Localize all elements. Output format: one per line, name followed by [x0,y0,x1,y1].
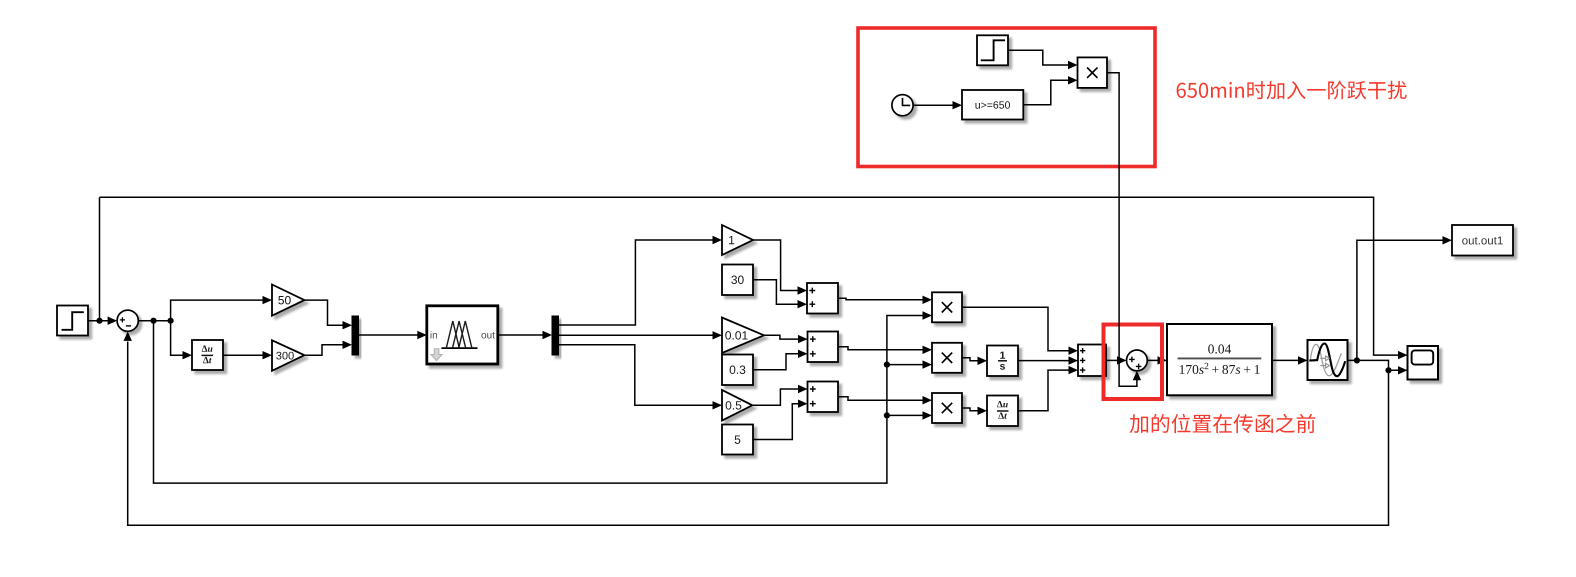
wire transport delay to scope input 2 [1348,360,1400,370]
integrator block 1/s [987,346,1018,377]
wire disturbance product down to sum junction plus input [1107,73,1141,387]
red annotation text position before transfer function [1130,414,1316,433]
wire gain 1 to sum A input 1 [753,240,799,291]
wire tap to product C input 2 [887,414,924,416]
wire sum A to product A input 1 [838,298,924,300]
wire constant 0.3 to sum B input 2 [753,354,800,370]
wire sum output [138,320,170,322]
wire demux output 3 to gain 0.5 [559,345,715,406]
clock block [892,95,913,116]
wire gain 300 to mux input 2 [304,345,344,355]
product block C [932,393,962,423]
wire clock to compare block [913,104,954,106]
wire product C to derivative 2 [962,408,980,411]
wire top reference line to scope input 1 [100,197,1400,355]
gain block 1 [722,225,753,255]
wire fuzzy controller to demux [498,334,544,336]
node error branch dot 2 [168,318,174,324]
wire main feedback to sum junction minus input [128,342,1389,526]
wire step2 to product input 1 [1008,50,1070,65]
final sum block (+++) [1078,345,1106,377]
wire tap to product B input 2 [887,364,924,366]
wire mux to fuzzy controller [359,334,419,336]
product block A [932,292,962,322]
disturbance product block [1078,57,1108,88]
wire demux output 2 to gain 0.01 [559,334,715,336]
constant block 5 [722,425,753,455]
derivative block du/dt 2 [987,396,1018,427]
wire reference branch up to top line [99,197,101,320]
red highlight rectangle around disturbance subsystem [858,28,1155,167]
node error branch dot 1 [150,318,156,324]
gain block 0.5 [722,390,752,421]
derivative block du/dt 1 [192,340,223,370]
outport block out.out1 [1452,225,1513,256]
sum junction circle (reference minus feedback) [117,310,138,331]
wire branch up to gain 50 [171,300,264,321]
node output tap dot [1354,357,1360,363]
compare to constant block u>=650 [962,90,1023,120]
wire derivative 1 to gain 300 [223,354,264,356]
wire derivative 2 to final sum input 3 [1018,370,1070,411]
wire product A to final sum input 1 [962,307,1070,350]
wire constant 30 to sum A input 2 [753,280,799,304]
wire sum C to product C input 1 [838,397,924,400]
transfer function block 0.04 / (170s^2+87s+1) [1167,324,1272,395]
wire compare block to product input 2 [1023,80,1069,105]
node branch dot at step output [96,318,102,324]
wire disturbance sum to transfer function [1147,359,1159,361]
wire error signal down-right to product A input 2 [154,316,925,484]
sum block A (++) [807,283,838,314]
disturbance sum junction circle (++) [1127,350,1148,371]
product block B [932,343,962,373]
wire step1 to sum junction [88,320,109,322]
step source block Step1 [57,306,88,336]
scope block [1408,346,1439,380]
wire integrator to final sum input 2 [1018,360,1070,362]
node feedback tap dot [1385,367,1391,373]
wire sum B to product B input 1 [838,347,924,350]
wire constant 5 to sum C input 2 [753,404,800,440]
wire gain 0.5 to sum C input 1 [752,389,799,405]
wire transfer function to transport delay [1272,359,1300,361]
sum block C (++) [808,382,839,413]
red annotation text 650min... [1177,81,1407,100]
wire final sum to disturbance sum junction [1106,359,1119,361]
wire output tap up to out.out1 [1357,240,1444,360]
constant block 30 [722,265,753,296]
transport delay block [1308,340,1348,380]
constant block 0.3 [722,355,753,386]
node product C tap dot [884,412,890,418]
sum block B (++) [808,332,839,363]
wire gain 0.01 to sum B input 1 [764,335,800,339]
gain block 300 [272,340,304,371]
mux bar [352,316,359,355]
fuzzy logic controller block [427,306,498,364]
wire product B to integrator [962,358,980,361]
step source block Step2 (disturbance) [977,35,1008,65]
gain block 0.01 [722,318,764,354]
wire gain 50 to mux input 1 [304,300,344,325]
demux bar [552,316,559,355]
wire branch down to derivative 1 [171,321,184,356]
wire demux output 1 to gain 1 [559,240,715,325]
node product B tap dot [884,362,890,368]
red highlight rectangle around disturbance sum junction [1104,325,1163,400]
gain block 50 [272,285,304,316]
